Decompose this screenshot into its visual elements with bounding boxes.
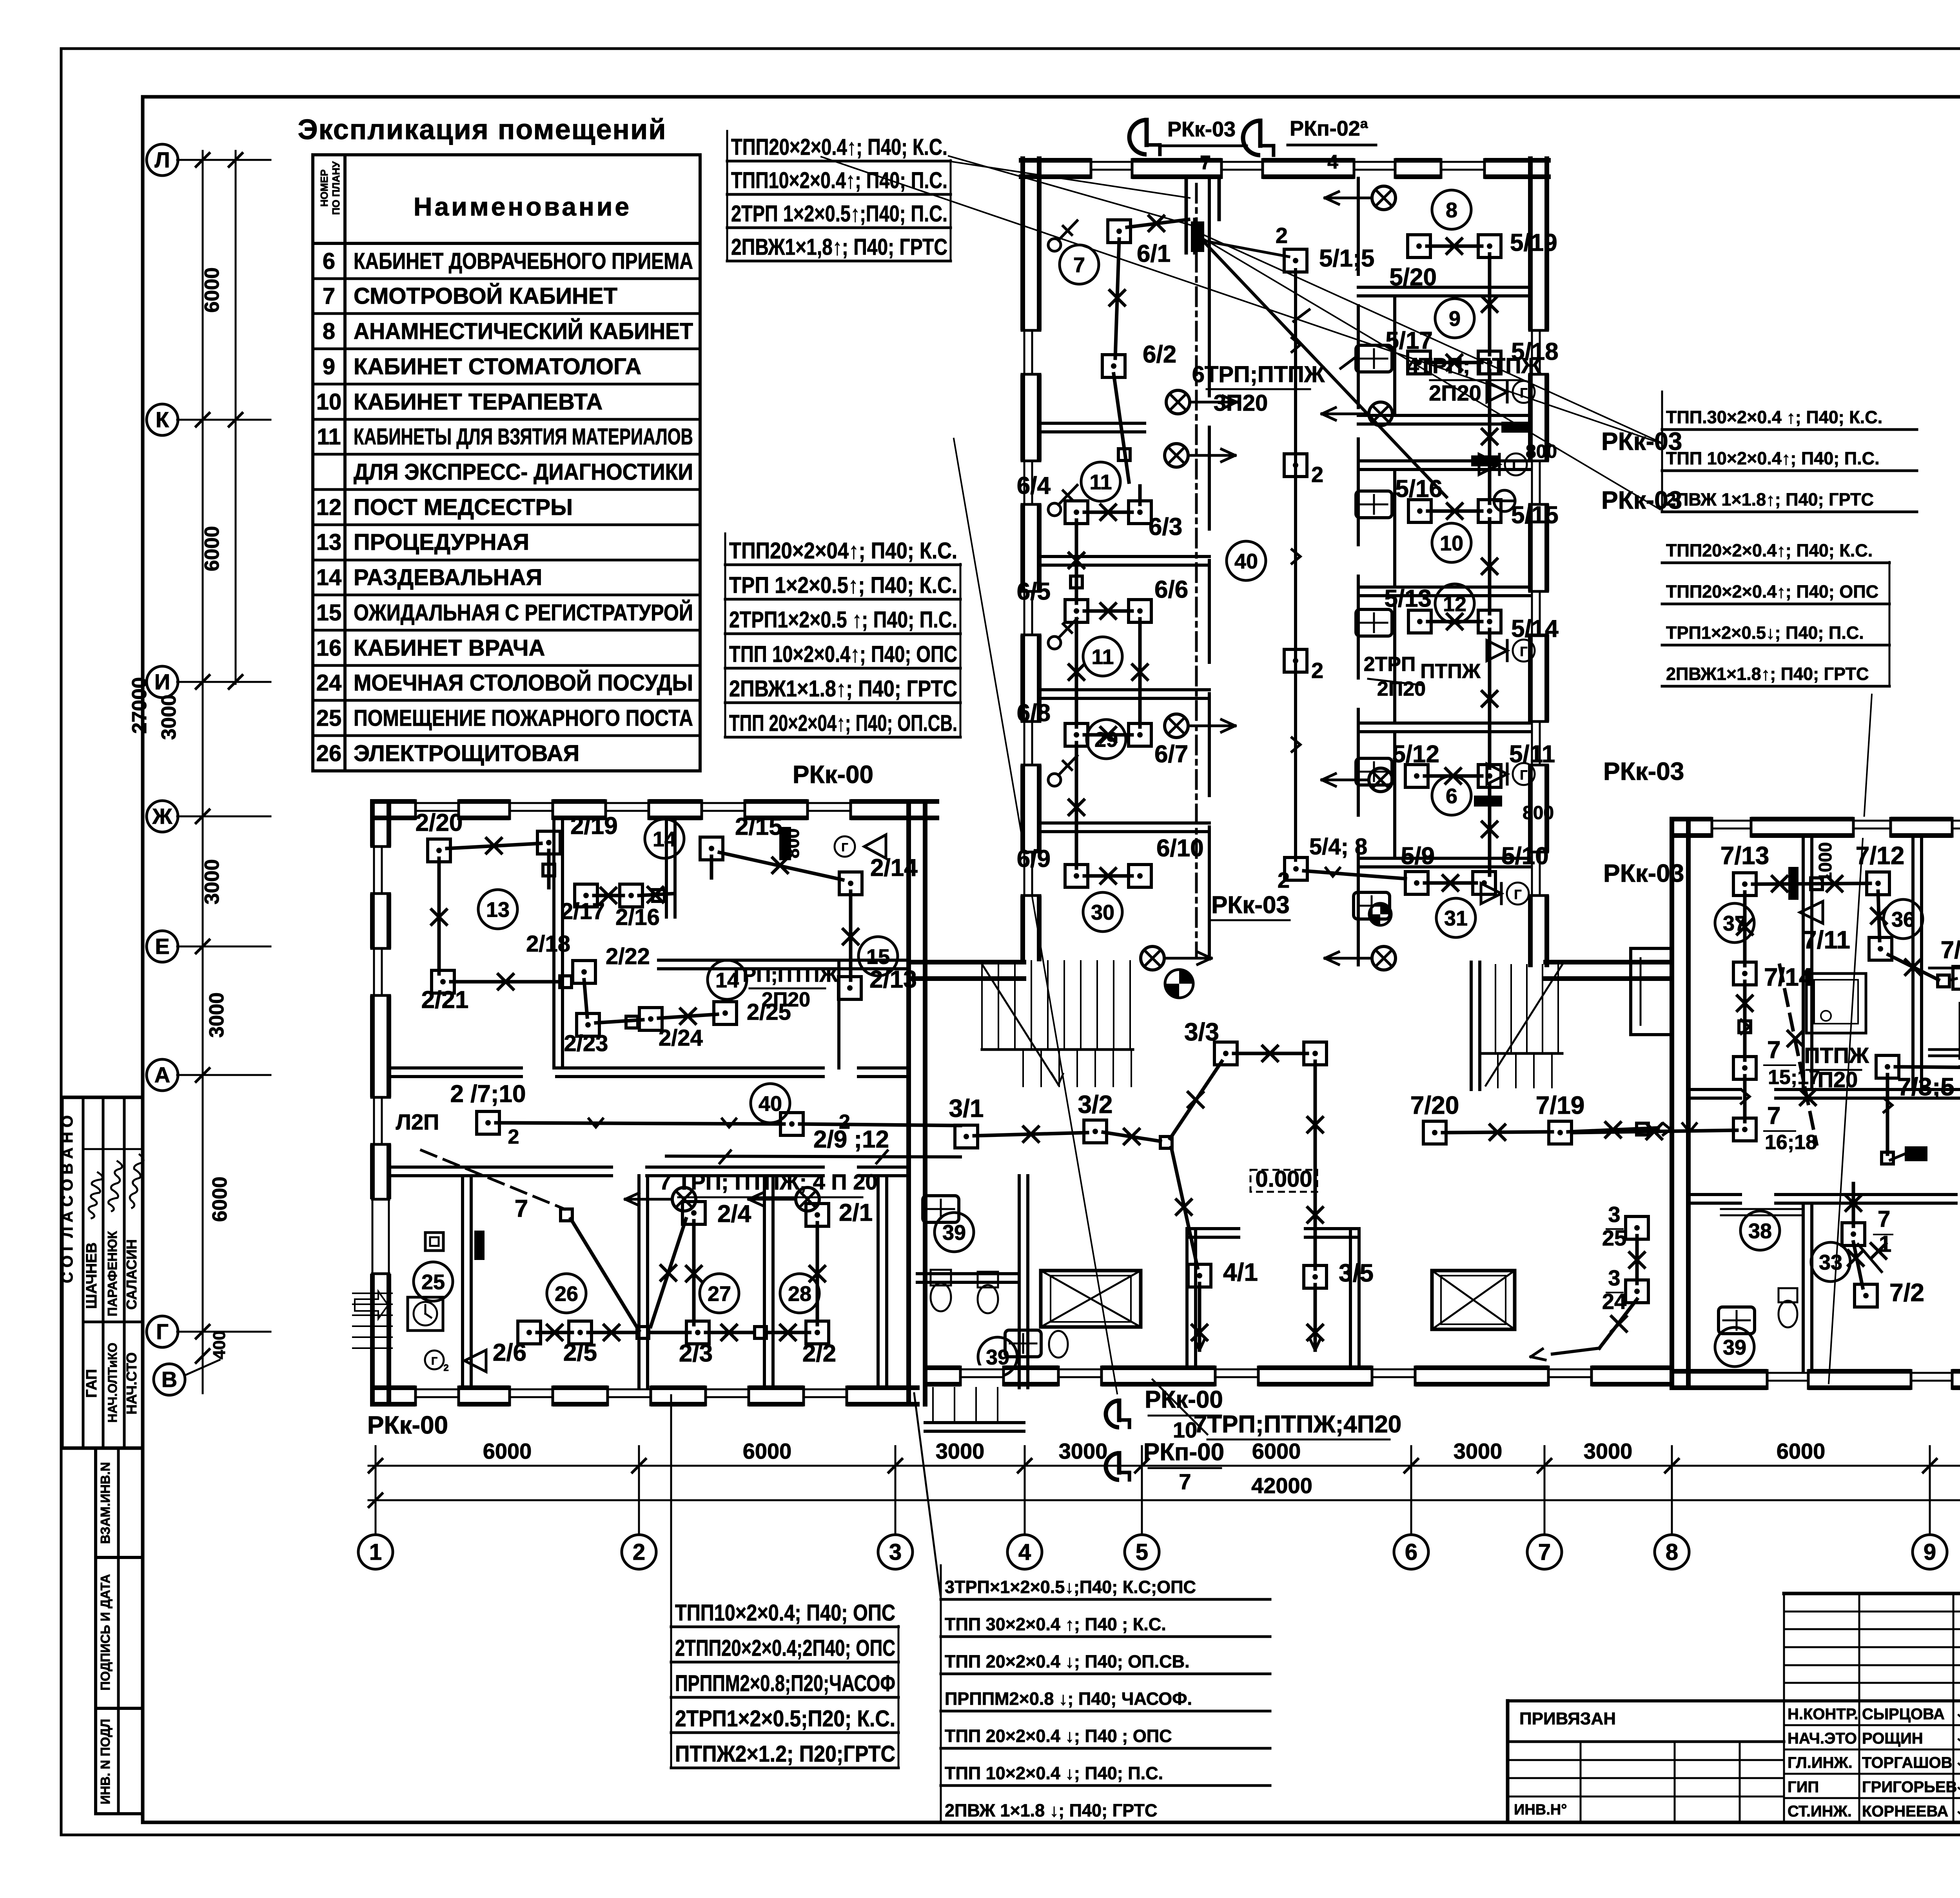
svg-text:2ПВЖ1×1,8↑; П40; ГРТС: 2ПВЖ1×1,8↑; П40; ГРТС bbox=[731, 234, 947, 260]
svg-text:РКп-00: РКп-00 bbox=[1143, 1439, 1224, 1466]
svg-text:9: 9 bbox=[1924, 1539, 1936, 1565]
svg-text:5/19: 5/19 bbox=[1510, 229, 1557, 256]
svg-text:2/20: 2/20 bbox=[416, 809, 463, 836]
svg-text:Л2П: Л2П bbox=[396, 1109, 439, 1134]
svg-text:7/20: 7/20 bbox=[1410, 1091, 1459, 1119]
svg-text:16: 16 bbox=[316, 635, 342, 661]
svg-text:400: 400 bbox=[210, 1331, 229, 1359]
svg-text:ВЗАМ.ИНВ.N: ВЗАМ.ИНВ.N bbox=[98, 1462, 113, 1544]
svg-text:2: 2 bbox=[1311, 658, 1323, 683]
svg-text:ТОРГАШОВ: ТОРГАШОВ bbox=[1862, 1754, 1952, 1771]
svg-text:6/3: 6/3 bbox=[1149, 513, 1182, 540]
svg-text:ПОДПИСЬ И ДАТА: ПОДПИСЬ И ДАТА bbox=[98, 1574, 113, 1690]
svg-text:4: 4 bbox=[1018, 1539, 1031, 1565]
svg-text:3П20: 3П20 bbox=[1214, 390, 1268, 416]
svg-text:27: 27 bbox=[708, 1282, 731, 1305]
svg-text:ПРППМ2×0.8;П20;ЧАСОФ: ПРППМ2×0.8;П20;ЧАСОФ bbox=[675, 1671, 895, 1696]
svg-text:Е: Е bbox=[155, 934, 169, 959]
svg-text:ТПП 20×2×0.4 ↓; П40 ; ОПС: ТПП 20×2×0.4 ↓; П40 ; ОПС bbox=[945, 1726, 1172, 1746]
svg-text:РКк-00: РКк-00 bbox=[793, 760, 873, 789]
svg-text:39: 39 bbox=[1723, 1336, 1746, 1359]
svg-text:39: 39 bbox=[942, 1221, 966, 1244]
svg-text:2: 2 bbox=[443, 1363, 448, 1373]
svg-text:7/11: 7/11 bbox=[1803, 926, 1850, 954]
svg-text:ТПП 20×2×04↑; П40; ОП.СВ.: ТПП 20×2×04↑; П40; ОП.СВ. bbox=[729, 711, 957, 736]
svg-text:6000: 6000 bbox=[743, 1439, 792, 1463]
svg-text:6/8: 6/8 bbox=[1017, 700, 1051, 727]
svg-text:11: 11 bbox=[1089, 470, 1112, 494]
svg-text:ТПП20×2×0.4↑; П40; ОПС: ТПП20×2×0.4↑; П40; ОПС bbox=[1666, 582, 1878, 602]
svg-text:Г: Г bbox=[156, 1319, 169, 1344]
svg-text:12: 12 bbox=[1443, 592, 1466, 616]
svg-text:2ПВЖ1×1.8↑; П40; ГРТС: 2ПВЖ1×1.8↑; П40; ГРТС bbox=[1666, 664, 1869, 684]
svg-text:ДЛЯ ЭКСПРЕСС- ДИАГНОСТИКИ: ДЛЯ ЭКСПРЕСС- ДИАГНОСТИКИ bbox=[354, 459, 693, 485]
svg-text:5/16: 5/16 bbox=[1395, 475, 1443, 502]
svg-text:Г: Г bbox=[841, 841, 848, 854]
svg-text:3000: 3000 bbox=[158, 694, 180, 740]
svg-text:0.000: 0.000 bbox=[1255, 1166, 1312, 1192]
svg-text:ГЛ.ИНЖ.: ГЛ.ИНЖ. bbox=[1788, 1754, 1853, 1771]
svg-text:2/9 ;12: 2/9 ;12 bbox=[813, 1126, 889, 1153]
svg-text:25: 25 bbox=[1602, 1225, 1626, 1250]
svg-text:2ПВЖ 1×1.8↑; П40; ГРТС: 2ПВЖ 1×1.8↑; П40; ГРТС bbox=[1666, 489, 1874, 509]
svg-text:КАБИНЕТ ДОВРАЧЕБНОГО ПРИЕМА: КАБИНЕТ ДОВРАЧЕБНОГО ПРИЕМА bbox=[354, 248, 693, 274]
svg-text:РКк-03: РКк-03 bbox=[1167, 118, 1236, 141]
svg-text:КАБИНЕТ ТЕРАПЕВТА: КАБИНЕТ ТЕРАПЕВТА bbox=[354, 389, 603, 415]
svg-text:5/9: 5/9 bbox=[1401, 843, 1435, 870]
svg-text:6/7: 6/7 bbox=[1154, 741, 1188, 768]
svg-text:7/14: 7/14 bbox=[1764, 963, 1813, 991]
svg-text:2/18: 2/18 bbox=[526, 931, 570, 957]
svg-text:26: 26 bbox=[316, 741, 342, 766]
svg-text:НАЧ.ОЛТиКО: НАЧ.ОЛТиКО bbox=[105, 1343, 120, 1423]
svg-text:5/20: 5/20 bbox=[1389, 264, 1437, 291]
svg-text:2/15: 2/15 bbox=[735, 813, 782, 840]
svg-text:ПРППМ2×0.8 ↓; П40; ЧАСОФ.: ПРППМ2×0.8 ↓; П40; ЧАСОФ. bbox=[945, 1689, 1192, 1709]
svg-text:ТПП20×2×0.4↑; П40; К.С.: ТПП20×2×0.4↑; П40; К.С. bbox=[1666, 540, 1873, 560]
svg-text:2/21: 2/21 bbox=[421, 986, 469, 1013]
svg-text:Г: Г bbox=[1520, 644, 1527, 659]
svg-text:П20: П20 bbox=[1818, 1067, 1858, 1092]
svg-text:7: 7 bbox=[1200, 152, 1211, 174]
svg-text:5/14: 5/14 bbox=[1511, 615, 1559, 642]
svg-text:40: 40 bbox=[1234, 549, 1258, 573]
svg-text:Г: Г bbox=[431, 1355, 437, 1367]
svg-text:ПО ПЛАНУ: ПО ПЛАНУ bbox=[330, 161, 342, 215]
svg-text:31: 31 bbox=[1444, 906, 1468, 930]
svg-text:ИНВ. N ПОДЛ: ИНВ. N ПОДЛ bbox=[98, 1719, 113, 1804]
svg-text:3000: 3000 bbox=[936, 1439, 985, 1463]
svg-text:КАБИНЕТ ВРАЧА: КАБИНЕТ ВРАЧА bbox=[354, 635, 545, 661]
svg-text:9: 9 bbox=[1449, 307, 1461, 330]
svg-text:26: 26 bbox=[555, 1282, 578, 1305]
svg-text:2/5: 2/5 bbox=[563, 1339, 597, 1366]
svg-text:Ж: Ж bbox=[152, 804, 172, 828]
svg-text:Г: Г bbox=[1520, 386, 1527, 401]
svg-text:2/19: 2/19 bbox=[570, 812, 618, 839]
svg-text:РКк-03: РКк-03 bbox=[1603, 757, 1684, 785]
svg-text:3000: 3000 bbox=[201, 859, 223, 905]
svg-text:НАЧ.СТО: НАЧ.СТО bbox=[123, 1352, 140, 1415]
svg-text:2: 2 bbox=[839, 1111, 850, 1133]
svg-text:5/12: 5/12 bbox=[1392, 741, 1439, 768]
svg-text:5/10: 5/10 bbox=[1501, 843, 1549, 870]
svg-text:7ТРП;ПТПЖ;4П20: 7ТРП;ПТПЖ;4П20 bbox=[1194, 1411, 1402, 1438]
svg-text:2: 2 bbox=[633, 1539, 645, 1565]
svg-text:4/1: 4/1 bbox=[1223, 1258, 1258, 1286]
svg-text:6/9: 6/9 bbox=[1017, 845, 1051, 872]
svg-text:6: 6 bbox=[1446, 784, 1457, 808]
svg-text:РКп-02ª: РКп-02ª bbox=[1290, 117, 1368, 140]
svg-text:СТ.ИНЖ.: СТ.ИНЖ. bbox=[1788, 1803, 1852, 1820]
svg-text:8: 8 bbox=[323, 319, 335, 344]
svg-text:С О Г Л А С О В А Н О: С О Г Л А С О В А Н О bbox=[59, 1115, 76, 1283]
svg-text:ТПП 30×2×0.4 ↑; П40 ; К.С.: ТПП 30×2×0.4 ↑; П40 ; К.С. bbox=[945, 1614, 1166, 1634]
svg-text:4: 4 bbox=[1327, 151, 1338, 173]
svg-text:28: 28 bbox=[788, 1282, 811, 1305]
svg-text:3000: 3000 bbox=[205, 992, 228, 1038]
svg-text:7: 7 bbox=[323, 283, 335, 309]
svg-text:9: 9 bbox=[323, 354, 335, 379]
svg-text:42000: 42000 bbox=[1251, 1473, 1312, 1498]
svg-text:2ТРП 1×2×0.5↑;П40; П.С.: 2ТРП 1×2×0.5↑;П40; П.С. bbox=[731, 201, 947, 227]
svg-text:24: 24 bbox=[316, 670, 342, 696]
svg-text:16;18: 16;18 bbox=[1765, 1131, 1817, 1154]
svg-text:7/3;5: 7/3;5 bbox=[1897, 1073, 1955, 1101]
svg-text:36: 36 bbox=[1891, 908, 1915, 931]
svg-text:2: 2 bbox=[1276, 223, 1288, 248]
svg-text:2/22: 2/22 bbox=[606, 944, 650, 969]
svg-text:Экспликация помещений: Экспликация помещений bbox=[298, 114, 666, 145]
svg-text:7: 7 bbox=[1767, 1037, 1780, 1064]
svg-text:Н.КОНТР.: Н.КОНТР. bbox=[1788, 1706, 1858, 1723]
svg-text:К: К bbox=[156, 407, 169, 432]
svg-text:ГИП: ГИП bbox=[1788, 1778, 1819, 1796]
svg-text:2ТРП: 2ТРП bbox=[1364, 653, 1416, 676]
svg-text:2ПВЖ 1×1.8 ↓; П40; ГРТС: 2ПВЖ 1×1.8 ↓; П40; ГРТС bbox=[945, 1800, 1157, 1820]
svg-text:7: 7 bbox=[1878, 1206, 1890, 1232]
svg-text:Г: Г bbox=[1512, 458, 1519, 473]
svg-text:10: 10 bbox=[1440, 531, 1463, 555]
svg-text:2ТРП1×2×0.5;П20; К.С.: 2ТРП1×2×0.5;П20; К.С. bbox=[675, 1706, 895, 1731]
svg-text:ТПП20×2×0.4↑; П40; К.С.: ТПП20×2×0.4↑; П40; К.С. bbox=[731, 134, 947, 160]
svg-text:30: 30 bbox=[1091, 901, 1114, 924]
svg-text:РКк-00: РКк-00 bbox=[367, 1411, 448, 1439]
svg-text:7: 7 bbox=[1179, 1469, 1191, 1494]
svg-text:ТРП 1×2×0.5↑; П40; К.С.: ТРП 1×2×0.5↑; П40; К.С. bbox=[729, 573, 957, 598]
svg-text:РКк-03: РКк-03 bbox=[1601, 486, 1682, 514]
svg-text:6000: 6000 bbox=[483, 1439, 532, 1463]
svg-text:6/4: 6/4 bbox=[1017, 472, 1051, 499]
svg-text:6: 6 bbox=[1405, 1539, 1417, 1565]
svg-text:6000: 6000 bbox=[201, 267, 223, 313]
svg-text:33: 33 bbox=[1819, 1251, 1842, 1274]
svg-text:5/1;5: 5/1;5 bbox=[1319, 245, 1374, 272]
svg-text:6ТРП;ПТПЖ: 6ТРП;ПТПЖ bbox=[1192, 362, 1325, 387]
svg-text:ТПП10×2×0.4; П40; ОПС: ТПП10×2×0.4; П40; ОПС bbox=[675, 1600, 895, 1626]
svg-text:А: А bbox=[154, 1062, 170, 1087]
svg-text:6/1: 6/1 bbox=[1137, 240, 1171, 267]
svg-text:3000: 3000 bbox=[1584, 1439, 1633, 1463]
svg-text:5/4; 8: 5/4; 8 bbox=[1309, 834, 1367, 859]
svg-text:2: 2 bbox=[508, 1126, 519, 1148]
svg-text:ЭЛЕКТРОЩИТОВАЯ: ЭЛЕКТРОЩИТОВАЯ bbox=[354, 741, 579, 766]
svg-text:5/13: 5/13 bbox=[1384, 585, 1432, 612]
svg-text:27000: 27000 bbox=[128, 677, 151, 734]
svg-text:Г: Г bbox=[1520, 768, 1527, 783]
svg-text:2/2: 2/2 bbox=[802, 1340, 836, 1367]
svg-text:ТРП;ПТПЖ: ТРП;ПТПЖ bbox=[730, 964, 838, 986]
svg-text:8: 8 bbox=[1446, 198, 1457, 222]
svg-text:5/11: 5/11 bbox=[1509, 741, 1555, 768]
svg-text:8: 8 bbox=[1666, 1539, 1678, 1565]
svg-text:ТПП.30×2×0.4 ↑; П40; К.С.: ТПП.30×2×0.4 ↑; П40; К.С. bbox=[1666, 407, 1882, 427]
svg-text:25: 25 bbox=[421, 1270, 445, 1294]
svg-text:РКк-03: РКк-03 bbox=[1211, 892, 1290, 919]
svg-text:7: 7 bbox=[1538, 1539, 1551, 1565]
svg-text:2/17: 2/17 bbox=[561, 899, 605, 924]
svg-text:2: 2 bbox=[1278, 868, 1290, 892]
svg-text:3/1: 3/1 bbox=[949, 1094, 984, 1122]
svg-text:7/10: 7/10 bbox=[1941, 937, 1960, 964]
svg-text:Г: Г bbox=[1514, 887, 1521, 902]
svg-text:40: 40 bbox=[759, 1092, 782, 1115]
svg-text:5/15: 5/15 bbox=[1511, 502, 1559, 529]
svg-text:Л: Л bbox=[154, 147, 170, 172]
svg-text:АНАМНЕСТИЧЕСКИЙ КАБИНЕТ: АНАМНЕСТИЧЕСКИЙ КАБИНЕТ bbox=[354, 319, 693, 344]
svg-text:14: 14 bbox=[316, 565, 342, 590]
svg-text:В: В bbox=[162, 1367, 177, 1392]
svg-text:Наименование: Наименование bbox=[414, 192, 632, 221]
svg-text:И: И bbox=[154, 669, 170, 694]
svg-text:3/5: 3/5 bbox=[1339, 1259, 1374, 1287]
svg-text:7/2: 7/2 bbox=[1889, 1278, 1924, 1307]
svg-text:ТПП 10×2×0.4↑; П40; П.С.: ТПП 10×2×0.4↑; П40; П.С. bbox=[1666, 448, 1880, 468]
svg-text:ПТПЖ2×1.2; П20;ГРТС: ПТПЖ2×1.2; П20;ГРТС bbox=[675, 1741, 895, 1767]
svg-text:ПАРАФЕНЮК: ПАРАФЕНЮК bbox=[105, 1231, 120, 1316]
svg-text:2П20: 2П20 bbox=[1429, 381, 1481, 405]
svg-text:13: 13 bbox=[486, 898, 510, 921]
svg-text:6/10: 6/10 bbox=[1156, 835, 1204, 862]
svg-text:25: 25 bbox=[316, 705, 342, 731]
svg-text:РАЗДЕВАЛЬНАЯ: РАЗДЕВАЛЬНАЯ bbox=[354, 565, 542, 590]
svg-text:800: 800 bbox=[1526, 441, 1557, 462]
svg-text:2: 2 bbox=[1311, 462, 1323, 487]
svg-text:ОЖИДАЛЬНАЯ С РЕГИСТРАТУРОЙ: ОЖИДАЛЬНАЯ С РЕГИСТРАТУРОЙ bbox=[354, 600, 693, 625]
svg-text:2/24: 2/24 bbox=[659, 1025, 703, 1051]
svg-text:3000: 3000 bbox=[1059, 1439, 1108, 1463]
svg-text:7/19: 7/19 bbox=[1536, 1091, 1585, 1119]
svg-text:ТПП 10×2×0.4 ↓; П40; П.С.: ТПП 10×2×0.4 ↓; П40; П.С. bbox=[945, 1763, 1163, 1783]
svg-text:2ТПП20×2×0.4;2П40; ОПС: 2ТПП20×2×0.4;2П40; ОПС bbox=[675, 1635, 895, 1661]
svg-text:2 /7;10: 2 /7;10 bbox=[450, 1080, 526, 1108]
svg-text:2/16: 2/16 bbox=[615, 905, 660, 930]
svg-text:38: 38 bbox=[1748, 1219, 1772, 1243]
svg-text:6/2: 6/2 bbox=[1143, 341, 1176, 368]
svg-text:15: 15 bbox=[316, 600, 342, 625]
svg-text:НАЧ.ЭТО: НАЧ.ЭТО bbox=[1788, 1730, 1857, 1747]
svg-text:10: 10 bbox=[316, 389, 342, 415]
svg-text:800: 800 bbox=[1523, 803, 1554, 823]
svg-text:ИНВ.Н°: ИНВ.Н° bbox=[1514, 1802, 1567, 1818]
svg-text:3ТРП×1×2×0.5↓;П40; К.С;ОПС: 3ТРП×1×2×0.5↓;П40; К.С;ОПС bbox=[945, 1577, 1196, 1597]
svg-text:ПТПЖ: ПТПЖ bbox=[1804, 1043, 1869, 1068]
svg-text:РКк-00: РКк-00 bbox=[1145, 1386, 1223, 1413]
svg-text:6000: 6000 bbox=[1777, 1439, 1826, 1463]
svg-text:7: 7 bbox=[515, 1195, 528, 1222]
svg-text:ПОМЕЩЕНИЕ ПОЖАРНОГО ПОСТА: ПОМЕЩЕНИЕ ПОЖАРНОГО ПОСТА bbox=[354, 705, 693, 731]
svg-text:15: 15 bbox=[866, 945, 890, 968]
svg-text:3/2: 3/2 bbox=[1078, 1090, 1113, 1118]
svg-text:6000: 6000 bbox=[201, 526, 223, 571]
svg-text:6/5: 6/5 bbox=[1017, 578, 1051, 605]
svg-text:ГРИГОРЬЕВ: ГРИГОРЬЕВ bbox=[1862, 1778, 1957, 1796]
svg-text:800: 800 bbox=[782, 828, 803, 859]
svg-text:ТПП 20×2×0.4 ↓; П40; ОП.СВ.: ТПП 20×2×0.4 ↓; П40; ОП.СВ. bbox=[945, 1651, 1190, 1671]
svg-text:3: 3 bbox=[889, 1539, 902, 1565]
svg-text:ПТПЖ: ПТПЖ bbox=[1420, 660, 1481, 683]
svg-text:14: 14 bbox=[653, 827, 676, 851]
svg-text:11: 11 bbox=[1091, 645, 1114, 669]
svg-text:3000: 3000 bbox=[1454, 1439, 1503, 1463]
svg-text:12: 12 bbox=[316, 495, 342, 520]
svg-text:13: 13 bbox=[316, 529, 342, 555]
svg-text:МОЕЧНАЯ СТОЛОВОЙ ПОСУДЫ: МОЕЧНАЯ СТОЛОВОЙ ПОСУДЫ bbox=[354, 670, 693, 696]
svg-text:24: 24 bbox=[1602, 1289, 1626, 1314]
svg-text:СЫРЦОВА: СЫРЦОВА bbox=[1862, 1706, 1945, 1723]
svg-text:6/6: 6/6 bbox=[1154, 576, 1188, 603]
svg-text:7/13: 7/13 bbox=[1720, 841, 1769, 870]
svg-text:ПОСТ МЕДСЕСТРЫ: ПОСТ МЕДСЕСТРЫ bbox=[354, 495, 573, 520]
svg-text:2ПВЖ1×1.8↑; П40; ГРТС: 2ПВЖ1×1.8↑; П40; ГРТС bbox=[729, 676, 957, 702]
svg-text:11: 11 bbox=[317, 424, 341, 450]
svg-text:ТРП1×2×0.5↓; П40; П.С.: ТРП1×2×0.5↓; П40; П.С. bbox=[1666, 623, 1864, 643]
svg-text:6: 6 bbox=[323, 248, 335, 274]
svg-text:ПРОЦЕДУРНАЯ: ПРОЦЕДУРНАЯ bbox=[354, 529, 529, 555]
svg-text:СМОТРОВОЙ КАБИНЕТ: СМОТРОВОЙ КАБИНЕТ bbox=[354, 283, 617, 309]
svg-text:7: 7 bbox=[1767, 1102, 1780, 1129]
svg-text:7/12: 7/12 bbox=[1856, 841, 1905, 870]
svg-text:2П20: 2П20 bbox=[762, 988, 810, 1011]
svg-text:ГАП: ГАП bbox=[83, 1369, 100, 1398]
svg-text:6000: 6000 bbox=[209, 1177, 231, 1222]
svg-text:РОЩИН: РОЩИН bbox=[1862, 1730, 1923, 1747]
svg-text:2/23: 2/23 bbox=[564, 1031, 608, 1056]
svg-text:2/1: 2/1 bbox=[839, 1199, 873, 1226]
svg-text:3: 3 bbox=[1608, 1265, 1620, 1290]
svg-text:1000: 1000 bbox=[1815, 842, 1835, 882]
svg-text:2ТРП1×2×0.5 ↑; П40; П.С.: 2ТРП1×2×0.5 ↑; П40; П.С. bbox=[729, 607, 957, 633]
svg-text:РКк-03: РКк-03 bbox=[1601, 427, 1682, 455]
svg-text:3: 3 bbox=[1608, 1202, 1620, 1227]
svg-text:НОМЕР: НОМЕР bbox=[318, 169, 330, 207]
svg-text:ТПП20×2×04↑; П40; К.С.: ТПП20×2×04↑; П40; К.С. bbox=[729, 538, 957, 564]
svg-text:2/14: 2/14 bbox=[870, 854, 918, 881]
svg-text:САЛАСИН: САЛАСИН bbox=[123, 1239, 140, 1310]
svg-text:5: 5 bbox=[1136, 1539, 1148, 1565]
svg-text:6000: 6000 bbox=[1252, 1439, 1301, 1463]
svg-text:ШАЧНЕВ: ШАЧНЕВ bbox=[83, 1242, 100, 1309]
svg-text:1: 1 bbox=[369, 1539, 382, 1565]
svg-text:ПРИВЯЗАН: ПРИВЯЗАН bbox=[1519, 1709, 1616, 1728]
svg-text:3/3: 3/3 bbox=[1184, 1018, 1219, 1046]
svg-text:КОРНЕЕВА: КОРНЕЕВА bbox=[1862, 1803, 1948, 1820]
svg-text:2/3: 2/3 bbox=[679, 1340, 713, 1367]
svg-text:ТПП 10×2×0.4↑; П40; ОПС: ТПП 10×2×0.4↑; П40; ОПС bbox=[729, 642, 957, 667]
svg-text:7: 7 bbox=[1073, 253, 1085, 277]
svg-text:2/6: 2/6 bbox=[493, 1339, 526, 1366]
svg-text:КАБИНЕТЫ ДЛЯ ВЗЯТИЯ МАТЕРИАЛОВ: КАБИНЕТЫ ДЛЯ ВЗЯТИЯ МАТЕРИАЛОВ bbox=[354, 424, 693, 450]
svg-text:КАБИНЕТ СТОМАТОЛОГА: КАБИНЕТ СТОМАТОЛОГА bbox=[354, 354, 641, 379]
svg-text:2/4: 2/4 bbox=[717, 1200, 751, 1227]
